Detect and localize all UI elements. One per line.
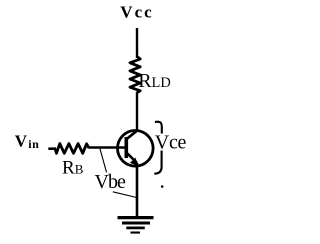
transistor Q1 circle	[118, 131, 154, 167]
svg-text:RB: RB	[62, 157, 84, 178]
resistor RLD	[130, 57, 140, 93]
transistor Q1 base bar	[125, 137, 129, 158]
wire emitter down	[136, 163, 139, 217]
ground bar 2	[122, 222, 150, 225]
transistor Q1 emitter arrow	[130, 158, 139, 167]
ground bar 3	[126, 227, 145, 230]
wire Vcc to RLD	[136, 28, 138, 58]
wire Vin lead	[48, 147, 56, 150]
ground bar 4	[131, 232, 141, 234]
transistor Q1 collector diagonal	[127, 131, 137, 139]
svg-text:Vce: Vce	[155, 132, 187, 154]
bracket Vce	[154, 122, 162, 174]
leader Vbe to emitter	[113, 192, 137, 198]
svg-text:V: V	[15, 132, 28, 151]
wire RB to base	[89, 146, 127, 148]
ground bar 1	[118, 216, 154, 219]
leader base to Vbe	[100, 149, 107, 173]
svg-text:RLD: RLD	[138, 70, 171, 92]
wire RLD to collector	[136, 92, 138, 132]
dot mark	[161, 185, 164, 188]
svg-text:in: in	[28, 137, 39, 151]
svg-text:Vbe: Vbe	[95, 171, 126, 193]
resistor RB	[55, 144, 89, 154]
svg-text:Vcc: Vcc	[120, 3, 153, 22]
transistor Q1 emitter diagonal	[128, 154, 138, 164]
